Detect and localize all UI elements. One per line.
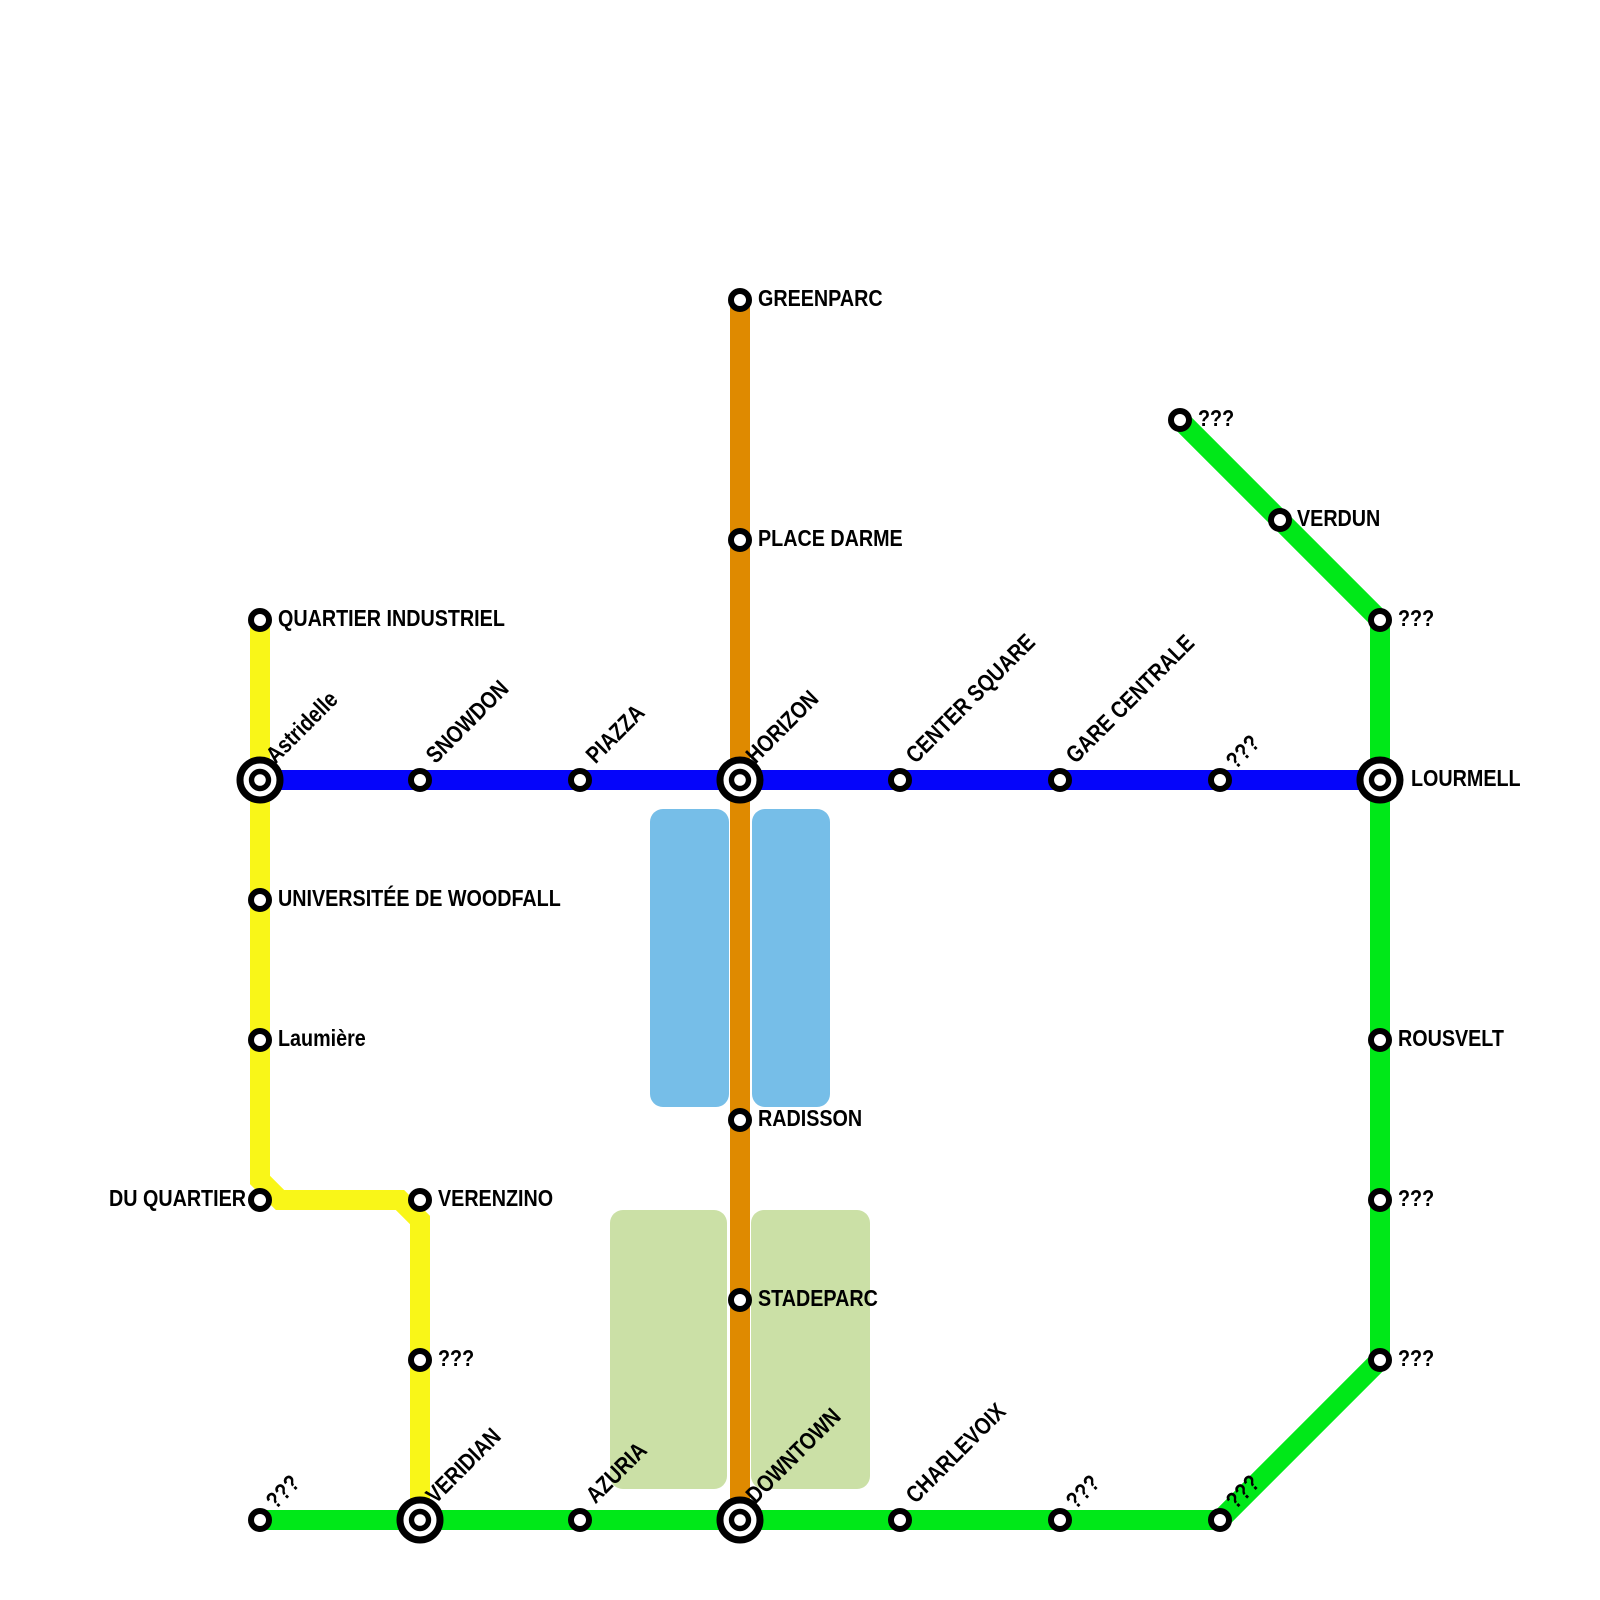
svg-text:VERDUN: VERDUN bbox=[1297, 504, 1380, 531]
svg-text:ROUSVELT: ROUSVELT bbox=[1398, 1024, 1505, 1051]
svg-text:STADEPARC: STADEPARC bbox=[758, 1284, 878, 1311]
svg-text:PLACE DARME: PLACE DARME bbox=[758, 524, 903, 551]
svg-text:UNIVERSITÉE DE WOODFALL: UNIVERSITÉE DE WOODFALL bbox=[278, 884, 561, 911]
svg-text:???: ??? bbox=[1398, 604, 1434, 631]
svg-text:Laumière: Laumière bbox=[278, 1024, 366, 1051]
svg-text:DU QUARTIER: DU QUARTIER bbox=[109, 1184, 246, 1211]
svg-text:???: ??? bbox=[1398, 1344, 1434, 1371]
svg-text:GREENPARC: GREENPARC bbox=[758, 284, 883, 311]
svg-text:???: ??? bbox=[438, 1344, 474, 1371]
svg-text:LOURMELL: LOURMELL bbox=[1411, 764, 1521, 791]
svg-text:???: ??? bbox=[1198, 404, 1234, 431]
svg-text:RADISSON: RADISSON bbox=[758, 1104, 862, 1131]
svg-text:VERENZINO: VERENZINO bbox=[438, 1184, 553, 1211]
svg-text:???: ??? bbox=[1398, 1184, 1434, 1211]
svg-text:QUARTIER INDUSTRIEL: QUARTIER INDUSTRIEL bbox=[278, 604, 505, 631]
